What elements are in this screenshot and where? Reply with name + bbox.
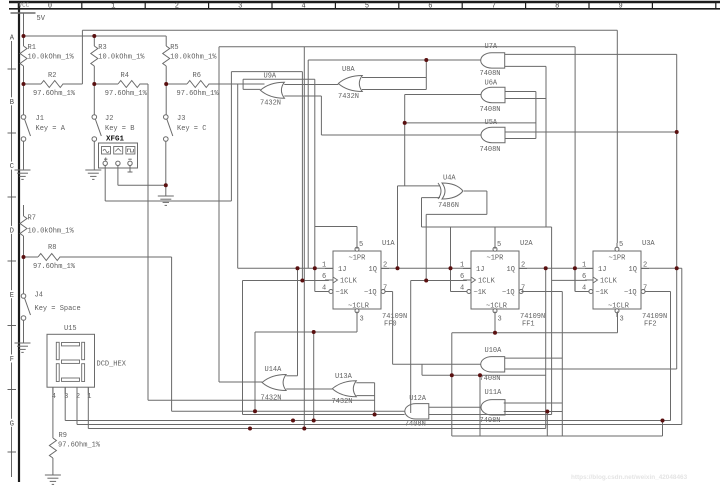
svg-text:~1Q: ~1Q: [364, 289, 377, 297]
svg-text:G: G: [10, 420, 14, 428]
svg-text:R4: R4: [121, 72, 129, 80]
svg-text:5: 5: [497, 241, 501, 249]
svg-text:7432N: 7432N: [332, 398, 353, 406]
svg-text:R2: R2: [48, 72, 56, 80]
svg-text:U1A: U1A: [382, 240, 395, 248]
svg-text:https://blog.csdn.net/weixin_4: https://blog.csdn.net/weixin_42048463: [571, 474, 688, 481]
svg-text:B: B: [10, 99, 14, 107]
svg-text:U14A: U14A: [265, 366, 283, 374]
svg-text:~1CLR: ~1CLR: [348, 303, 370, 311]
svg-text:7: 7: [643, 285, 647, 293]
svg-text:6: 6: [460, 273, 464, 281]
svg-text:~1K: ~1K: [474, 289, 487, 297]
svg-text:3: 3: [498, 316, 502, 324]
svg-text:U3A: U3A: [642, 240, 655, 248]
svg-text:DCD_HEX: DCD_HEX: [97, 361, 127, 369]
svg-text:R3: R3: [98, 44, 106, 52]
svg-text:~1PR: ~1PR: [609, 255, 627, 263]
svg-text:1CLK: 1CLK: [600, 278, 618, 286]
svg-text:~1K: ~1K: [336, 289, 349, 297]
svg-text:D: D: [10, 228, 14, 236]
svg-text:VCC: VCC: [19, 2, 30, 9]
svg-text:1J: 1J: [598, 266, 606, 274]
svg-text:F: F: [10, 356, 14, 364]
svg-text:R6: R6: [193, 72, 201, 80]
svg-text:R5: R5: [170, 44, 178, 52]
svg-text:FF1: FF1: [522, 321, 535, 329]
svg-text:7432N: 7432N: [338, 93, 359, 101]
svg-text:4: 4: [52, 393, 56, 401]
svg-text:97.6Ohm_1%: 97.6Ohm_1%: [33, 90, 76, 98]
svg-text:U10A: U10A: [485, 347, 503, 355]
svg-text:3: 3: [238, 3, 242, 11]
svg-text:97.6Ohm_1%: 97.6Ohm_1%: [105, 90, 148, 98]
svg-text:2: 2: [175, 3, 179, 11]
svg-text:3: 3: [620, 316, 624, 324]
svg-text:J1: J1: [36, 115, 44, 123]
svg-text:U11A: U11A: [485, 389, 503, 397]
svg-text:R8: R8: [48, 244, 56, 252]
svg-text:C: C: [10, 163, 14, 171]
svg-text:U8A: U8A: [342, 66, 355, 74]
svg-text:1: 1: [111, 3, 115, 11]
svg-text:97.6Ohm_1%: 97.6Ohm_1%: [177, 90, 220, 98]
svg-text:XFG1: XFG1: [106, 136, 125, 144]
svg-text:J3: J3: [177, 115, 185, 123]
svg-text:R7: R7: [28, 215, 36, 223]
svg-text:7432N: 7432N: [261, 395, 282, 403]
svg-text:6: 6: [322, 273, 326, 281]
svg-text:5: 5: [619, 241, 623, 249]
svg-text:9: 9: [618, 3, 622, 11]
svg-text:1Q: 1Q: [629, 266, 637, 274]
svg-text:E: E: [10, 292, 14, 300]
svg-text:1CLK: 1CLK: [340, 278, 358, 286]
svg-text:1J: 1J: [338, 266, 346, 274]
svg-text:~1PR: ~1PR: [349, 255, 367, 263]
svg-text:J4: J4: [35, 292, 43, 300]
svg-text:R1: R1: [28, 44, 36, 52]
svg-text:5: 5: [365, 3, 369, 11]
svg-text:1Q: 1Q: [507, 266, 515, 274]
svg-text:6: 6: [582, 273, 586, 281]
svg-text:4: 4: [301, 3, 305, 11]
svg-text:FF2: FF2: [644, 321, 657, 329]
svg-text:7486N: 7486N: [438, 202, 459, 210]
svg-text:8: 8: [555, 3, 559, 11]
svg-text:Key = C: Key = C: [177, 125, 206, 133]
svg-text:7432N: 7432N: [260, 100, 281, 108]
svg-text:97.6Ohm_1%: 97.6Ohm_1%: [33, 263, 76, 271]
svg-text:7408N: 7408N: [480, 106, 501, 114]
svg-text:U15: U15: [64, 325, 77, 333]
svg-text:5V: 5V: [37, 15, 46, 23]
svg-text:10.0kOhm_1%: 10.0kOhm_1%: [170, 54, 217, 62]
svg-text:97.6Ohm_1%: 97.6Ohm_1%: [58, 442, 101, 450]
svg-text:7: 7: [492, 3, 496, 11]
svg-text:~1CLR: ~1CLR: [486, 303, 508, 311]
svg-text:~1CLR: ~1CLR: [608, 303, 630, 311]
svg-text:~1Q: ~1Q: [502, 289, 515, 297]
svg-text:FF0: FF0: [384, 321, 397, 329]
svg-text:U6A: U6A: [485, 80, 498, 88]
svg-text:7408N: 7408N: [480, 375, 501, 383]
svg-text:5: 5: [359, 241, 363, 249]
svg-text:U4A: U4A: [443, 175, 456, 183]
svg-text:10.0kOhm_1%: 10.0kOhm_1%: [98, 54, 145, 62]
svg-text:U13A: U13A: [335, 373, 353, 381]
svg-text:J2: J2: [105, 115, 113, 123]
svg-text:U12A: U12A: [409, 395, 427, 403]
svg-text:~1PR: ~1PR: [487, 255, 505, 263]
svg-text:~1K: ~1K: [596, 289, 609, 297]
svg-text:7408N: 7408N: [480, 70, 501, 78]
svg-text:1J: 1J: [476, 266, 484, 274]
svg-text:10.0kOhm_1%: 10.0kOhm_1%: [28, 54, 75, 62]
svg-text:~1Q: ~1Q: [624, 289, 637, 297]
svg-text:Key = B: Key = B: [105, 125, 134, 133]
svg-text:Key = Space: Key = Space: [35, 305, 81, 313]
svg-text:0: 0: [48, 3, 52, 11]
svg-text:3: 3: [360, 316, 364, 324]
svg-text:U2A: U2A: [520, 240, 533, 248]
svg-text:6: 6: [428, 3, 432, 11]
svg-text:R9: R9: [59, 432, 67, 440]
svg-text:10.0kOhm_1%: 10.0kOhm_1%: [28, 228, 75, 236]
svg-text:Key = A: Key = A: [36, 125, 66, 133]
svg-text:7408N: 7408N: [480, 146, 501, 154]
svg-text:1CLK: 1CLK: [478, 278, 496, 286]
svg-text:1Q: 1Q: [369, 266, 377, 274]
